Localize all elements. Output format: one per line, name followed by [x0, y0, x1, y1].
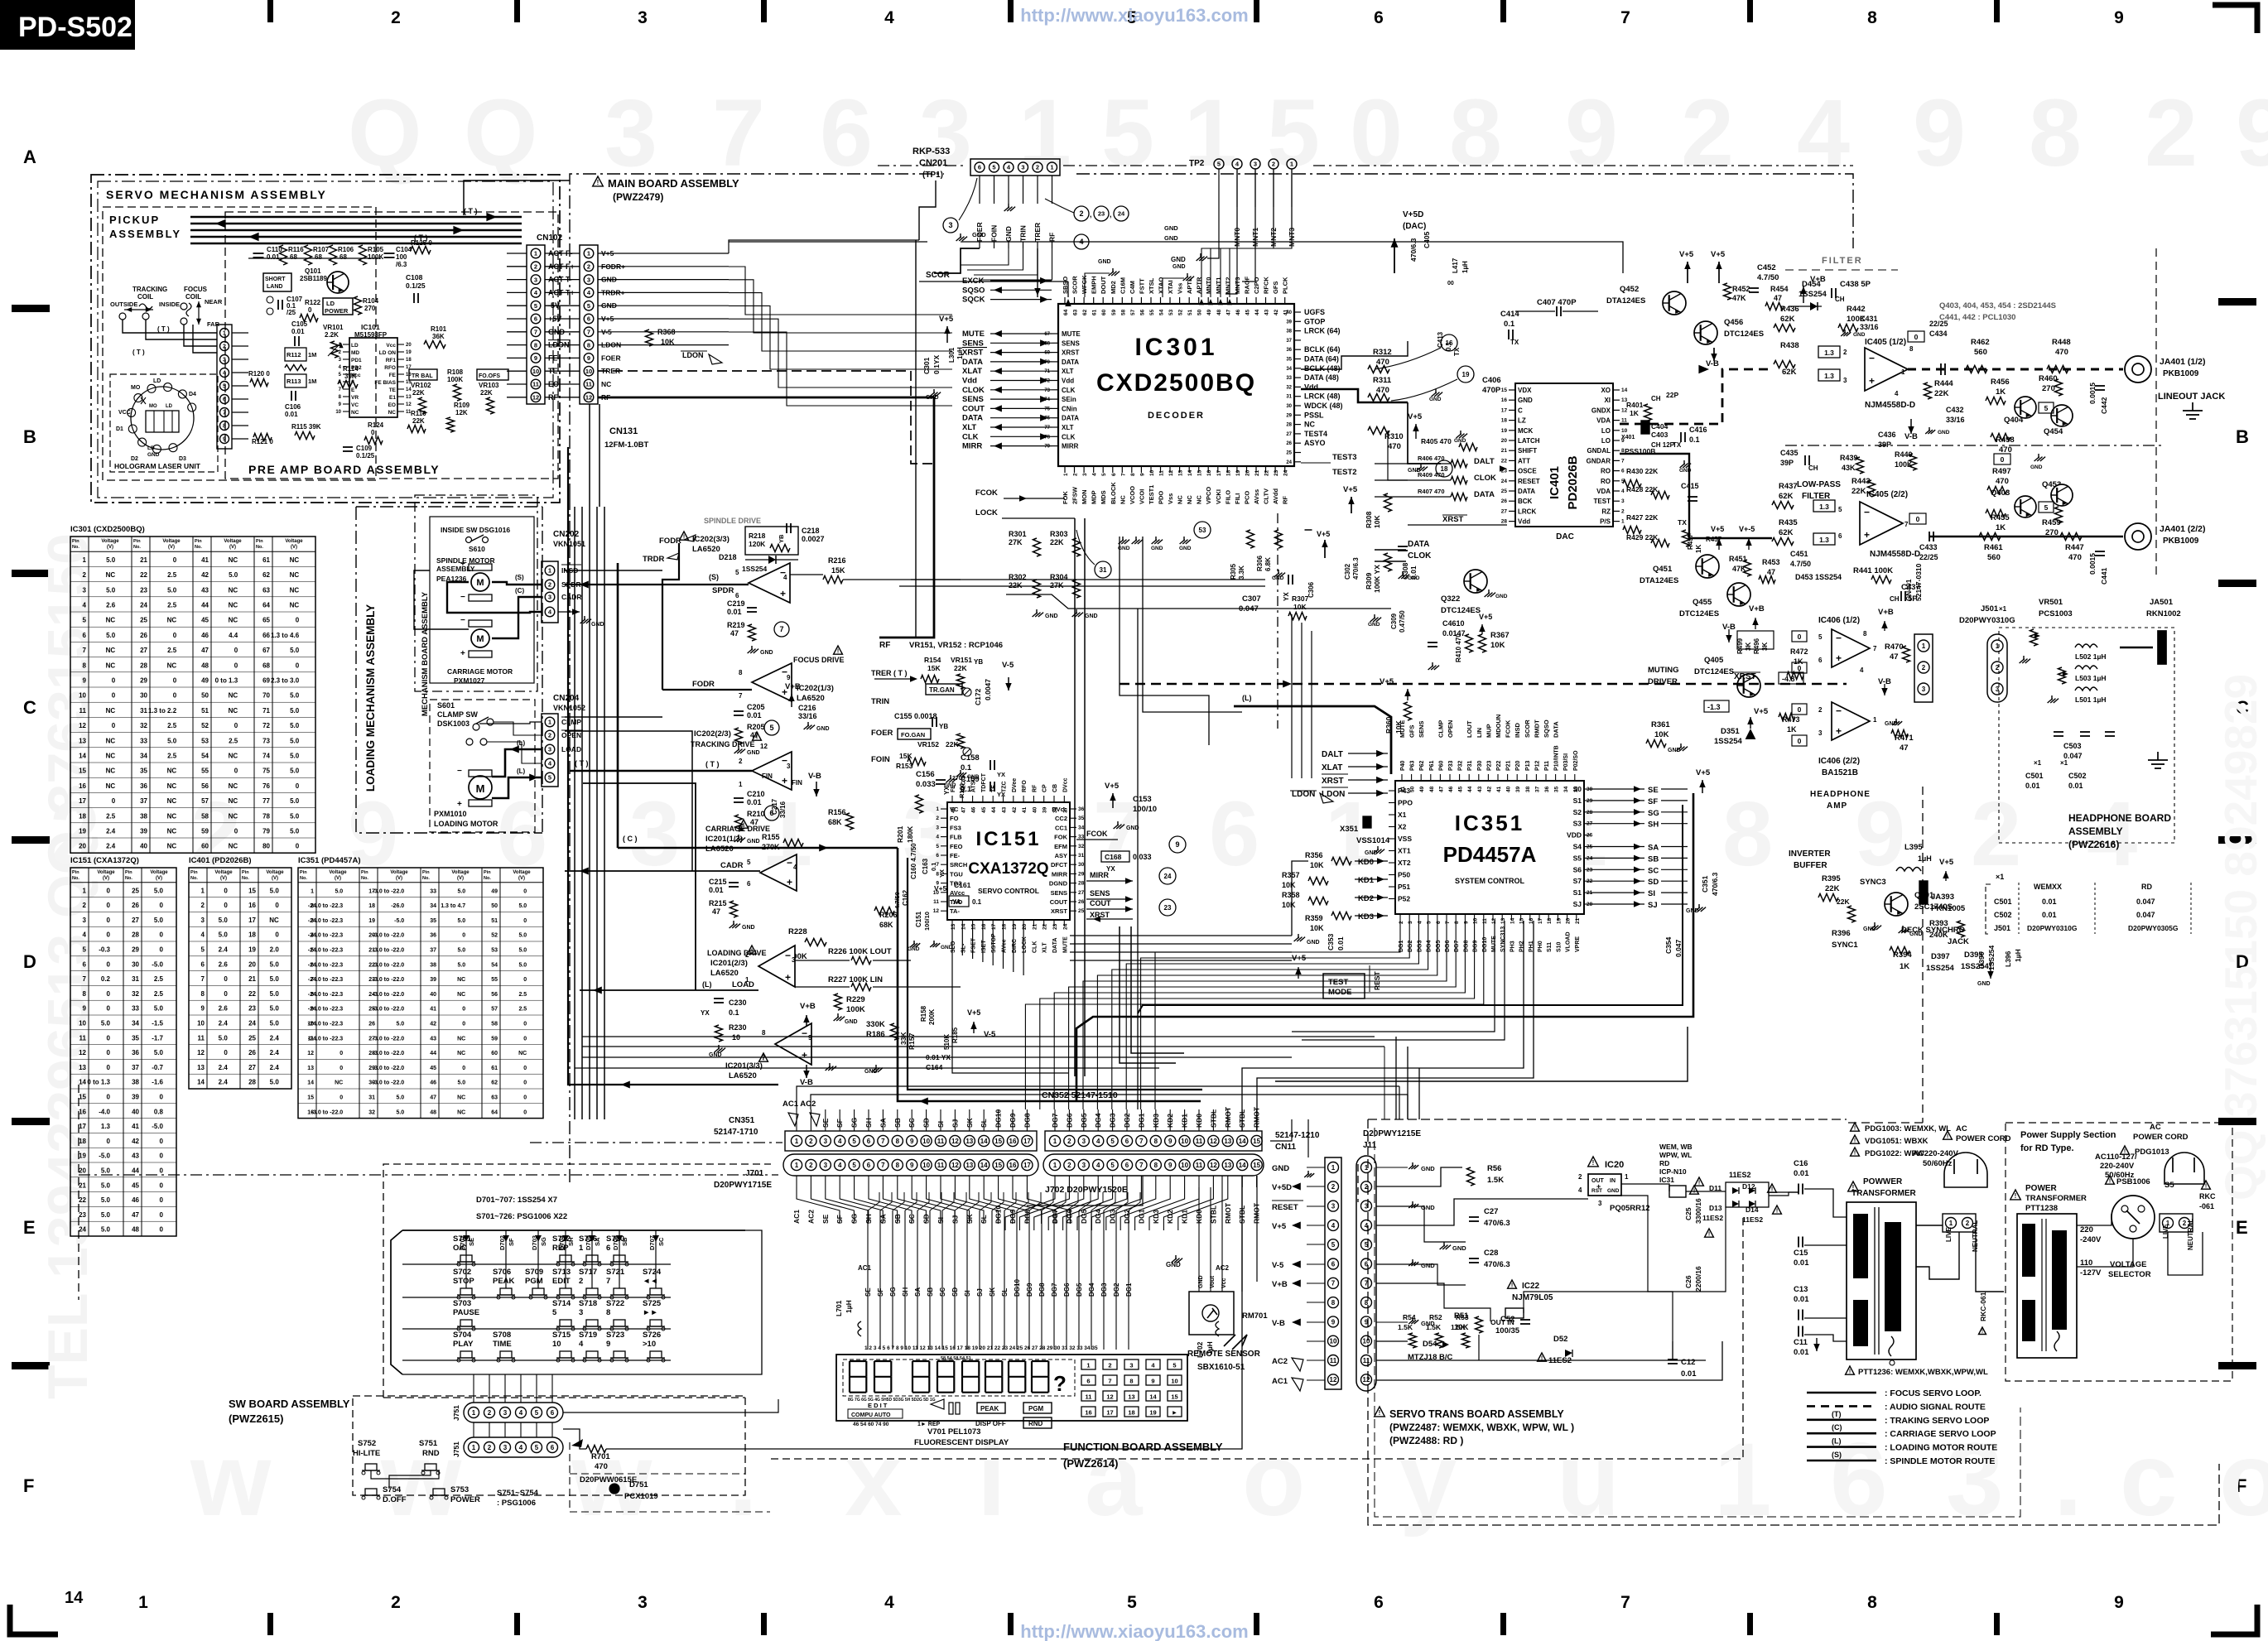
svg-text:11: 11	[198, 1034, 205, 1042]
svg-text:PD2026B: PD2026B	[1566, 455, 1580, 509]
svg-text:D395: D395	[1964, 950, 1983, 960]
IC151 bottom fan to CN352	[951, 926, 953, 952]
svg-text:C163: C163	[922, 858, 929, 874]
svg-text:: PSG1006: : PSG1006	[497, 1499, 536, 1508]
headphone board assembly box	[1999, 628, 2174, 843]
svg-text:1K: 1K	[1996, 523, 2006, 532]
svg-text:5.0: 5.0	[154, 1005, 164, 1013]
svg-text:No.: No.	[300, 876, 307, 881]
svg-text:NC: NC	[106, 768, 116, 775]
svg-text:1: 1	[223, 331, 226, 337]
svg-text:7: 7	[779, 625, 783, 633]
svg-text:7: 7	[1331, 1280, 1336, 1287]
svg-text:5.0: 5.0	[167, 737, 177, 744]
svg-text:RESET: RESET	[1518, 478, 1540, 485]
top border ticks and zone numbers	[267, 0, 273, 22]
ground symbols under IC301	[1122, 537, 1124, 541]
svg-text:0: 0	[275, 902, 279, 909]
svg-text:1.3: 1.3	[101, 1123, 111, 1130]
svg-text:/25: /25	[287, 309, 296, 316]
svg-text:470/6.3: 470/6.3	[1352, 557, 1360, 580]
svg-text:1: 1	[795, 1138, 799, 1145]
svg-text:(V): (V)	[156, 876, 162, 881]
svg-text:DATA: DATA	[1518, 488, 1535, 495]
svg-text:S4: S4	[1573, 843, 1582, 851]
svg-text:C28: C28	[1484, 1249, 1498, 1258]
svg-text:TRER: TRER	[1033, 223, 1042, 242]
svg-text:SENS: SENS	[962, 395, 984, 404]
svg-text:R496: R496	[1753, 638, 1760, 654]
svg-text:V+5: V+5	[1711, 525, 1724, 533]
svg-text:31: 31	[1100, 566, 1107, 574]
svg-text:MIRR: MIRR	[1062, 443, 1079, 450]
svg-text:28: 28	[1078, 881, 1085, 887]
svg-text:50: 50	[201, 692, 209, 700]
svg-text:3: 3	[503, 1444, 508, 1451]
svg-text:5.0: 5.0	[457, 948, 465, 954]
svg-text:−: −	[1836, 705, 1842, 717]
svg-text:CN11: CN11	[1275, 1143, 1296, 1152]
svg-text:GND: GND	[1607, 1188, 1620, 1194]
svg-text:DAC: DAC	[1556, 532, 1574, 541]
svg-text:0.01: 0.01	[727, 608, 742, 616]
Q455 DTC124ES	[1727, 583, 1750, 606]
svg-text:SG: SG	[1648, 809, 1659, 818]
svg-text:8: 8	[1722, 783, 1773, 885]
svg-text:NC: NC	[229, 707, 238, 715]
svg-text:1: 1	[548, 567, 551, 575]
svg-text:-1.7: -1.7	[152, 1034, 163, 1042]
svg-text:DATA: DATA	[1408, 540, 1429, 549]
svg-text:NC: NC	[351, 410, 359, 416]
svg-text:PEAK: PEAK	[493, 1277, 515, 1286]
svg-text:LO: LO	[1601, 427, 1611, 435]
svg-text:11: 11	[933, 899, 939, 905]
svg-text:1: 1	[1922, 642, 1926, 650]
svg-text:C441, 442 : PCL1030: C441, 442 : PCL1030	[1939, 313, 2015, 322]
svg-text:17: 17	[1216, 469, 1222, 476]
svg-text:XT2: XT2	[1398, 859, 1411, 867]
svg-text:6: 6	[747, 880, 751, 888]
svg-text:61: 61	[1092, 309, 1098, 315]
svg-text:21: 21	[1501, 448, 1508, 454]
svg-text:18: 18	[79, 1138, 86, 1145]
svg-text:5: 5	[747, 859, 751, 866]
svg-text:1: 1	[1290, 161, 1293, 168]
svg-text:CLMP: CLMP	[561, 718, 581, 726]
svg-text:LOADING DRIVE: LOADING DRIVE	[707, 949, 767, 957]
svg-text:NC: NC	[106, 571, 116, 579]
svg-text:YX: YX	[997, 771, 1005, 778]
svg-text:L501 1µH: L501 1µH	[2075, 695, 2107, 704]
thick (L) route to IC351 region	[1234, 706, 1391, 774]
svg-text:3: 3	[638, 1593, 648, 1612]
svg-text:-127V: -127V	[2080, 1268, 2102, 1278]
svg-text:R158: R158	[920, 1005, 927, 1022]
svg-text:12FM-1.0BT: 12FM-1.0BT	[604, 440, 649, 450]
svg-text:19: 19	[79, 828, 86, 835]
svg-text:6: 6	[606, 1244, 610, 1253]
svg-text:R367: R367	[1490, 631, 1510, 640]
DATA/BCLK thick route from IC301 right to DAC	[1301, 389, 1408, 402]
svg-text:61: 61	[491, 1066, 498, 1071]
svg-text:DG2: DG2	[1113, 1282, 1120, 1297]
svg-text:LD ON: LD ON	[379, 350, 397, 356]
svg-text:L502 1µH: L502 1µH	[2075, 652, 2107, 661]
svg-text:37: 37	[140, 797, 147, 805]
svg-text:1: 1	[1086, 1362, 1090, 1369]
svg-text:8: 8	[1454, 921, 1460, 924]
svg-text:PD-S502: PD-S502	[18, 12, 132, 43]
svg-text:R156: R156	[828, 808, 846, 816]
svg-text:23: 23	[248, 1005, 256, 1013]
svg-text:17: 17	[1106, 1409, 1113, 1417]
svg-text:SYNC3: SYNC3	[1860, 878, 1886, 887]
svg-text:7: 7	[1620, 1593, 1630, 1612]
svg-text:(PWZ2488: RD ): (PWZ2488: RD )	[1389, 1435, 1463, 1446]
AC power cord 1	[1943, 1131, 1953, 1139]
svg-text:Voltage: Voltage	[224, 539, 242, 544]
svg-text:C451: C451	[1790, 550, 1808, 558]
svg-text:8: 8	[2029, 80, 2082, 186]
C109 0.1/25	[343, 446, 353, 448]
svg-text:0: 0	[160, 1196, 164, 1204]
svg-text:5: 5	[2044, 404, 2049, 412]
svg-text:0.1/25: 0.1/25	[356, 452, 375, 460]
svg-text:5: 5	[1838, 506, 1842, 513]
svg-text:5: 5	[535, 1409, 539, 1417]
svg-text:470: 470	[1996, 477, 2009, 486]
svg-text:XTAI: XTAI	[1167, 280, 1174, 294]
svg-text:2.0: 2.0	[270, 946, 280, 954]
svg-text:1: 1	[548, 719, 551, 726]
J11 right side gnd wires	[1376, 1167, 1408, 1168]
bottom-left corner mark	[10, 1605, 58, 1634]
svg-text:37: 37	[430, 948, 436, 954]
svg-text:V+5: V+5	[1754, 707, 1769, 716]
svg-text:3: 3	[1408, 921, 1413, 924]
svg-text:No.: No.	[125, 876, 132, 881]
svg-text:L395: L395	[1904, 843, 1923, 852]
bottom border ticks and zone numbers	[267, 1613, 273, 1635]
svg-text:40: 40	[140, 843, 147, 850]
svg-text:9: 9	[1139, 473, 1145, 476]
svg-text:20: 20	[248, 960, 256, 968]
svg-text:FO: FO	[950, 815, 959, 822]
svg-text:FILI: FILI	[1234, 493, 1241, 504]
svg-text:26: 26	[1286, 441, 1292, 446]
svg-text:0: 0	[107, 1034, 111, 1042]
svg-text:21: 21	[1575, 917, 1581, 924]
carriage motor	[469, 620, 492, 627]
svg-text:0.1: 0.1	[961, 763, 972, 772]
svg-text:D52: D52	[1553, 1335, 1567, 1344]
svg-text:16: 16	[1009, 1138, 1017, 1145]
svg-text:3: 3	[534, 276, 537, 283]
svg-text:MO: MO	[149, 404, 157, 409]
svg-text:5.0: 5.0	[219, 931, 229, 939]
svg-text:4: 4	[519, 1409, 523, 1417]
svg-text:2: 2	[1272, 161, 1275, 168]
svg-text:21: 21	[248, 975, 256, 983]
svg-text:Q404: Q404	[2004, 416, 2024, 425]
svg-text:POWER CORD: POWER CORD	[2133, 1133, 2189, 1142]
svg-text:29: 29	[132, 946, 139, 954]
svg-text:FOIN: FOIN	[871, 755, 890, 764]
svg-text:0: 0	[371, 429, 375, 436]
svg-text:7: 7	[1620, 8, 1630, 27]
svg-text:R201: R201	[896, 825, 904, 843]
JA393 PKN1005 deck synchro jack	[1919, 881, 1928, 904]
svg-text:C354: C354	[1664, 936, 1673, 954]
svg-text:5.0: 5.0	[154, 887, 164, 894]
svg-text:FE-: FE-	[950, 852, 961, 859]
svg-text:2: 2	[1843, 349, 1847, 356]
svg-text:C12: C12	[1681, 1358, 1695, 1367]
svg-text:9: 9	[1565, 80, 1618, 186]
svg-text:5.0: 5.0	[101, 1020, 111, 1027]
svg-text:PRE AMP BOARD ASSEMBLY: PRE AMP BOARD ASSEMBLY	[248, 463, 440, 476]
svg-text:2: 2	[1036, 164, 1039, 171]
svg-text:VDG1051: WBXK: VDG1051: WBXK	[1865, 1137, 1929, 1146]
svg-text:D20PWY0310G: D20PWY0310G	[2027, 924, 2078, 932]
svg-text:RM701: RM701	[1242, 1311, 1268, 1321]
svg-text:DVee: DVee	[1012, 778, 1018, 792]
svg-text:2.5: 2.5	[106, 812, 116, 820]
svg-text:18: 18	[368, 903, 375, 909]
svg-text:34: 34	[1563, 786, 1569, 792]
svg-text:YX: YX	[1106, 865, 1115, 873]
wire J751 to R701 to function bus	[563, 1429, 586, 1449]
svg-text:( C ): ( C )	[623, 835, 638, 843]
svg-text:CH: CH	[1890, 595, 1900, 603]
power transformer PTT1238	[2010, 1190, 2021, 1200]
svg-text:RFO: RFO	[1022, 780, 1028, 792]
svg-text:FODR: FODR	[692, 680, 715, 689]
svg-text:Q403: Q403	[1991, 488, 2010, 498]
mechanism board assembly box	[415, 495, 537, 691]
svg-text:1K: 1K	[1996, 387, 2006, 397]
svg-text:TEST3: TEST3	[1332, 453, 1357, 462]
svg-text:LRCK (64): LRCK (64)	[1304, 327, 1341, 335]
svg-text:0: 0	[1798, 737, 1802, 745]
svg-text:2FSW: 2FSW	[1071, 486, 1079, 504]
power transformer PTT1236	[1848, 1181, 1859, 1191]
svg-text:20: 20	[1245, 469, 1251, 476]
svg-text:C: C	[23, 697, 36, 718]
svg-text:C218: C218	[802, 527, 820, 535]
svg-text:5: 5	[83, 946, 87, 954]
svg-text:SHORT: SHORT	[265, 277, 286, 282]
svg-text:×1: ×1	[2060, 759, 2068, 767]
svg-text:23: 23	[79, 1211, 86, 1219]
svg-text:25: 25	[1286, 451, 1292, 456]
svg-text:6: 6	[1374, 1593, 1384, 1612]
svg-text:27: 27	[132, 917, 139, 924]
svg-text:18: 18	[1547, 917, 1553, 924]
svg-text:M: M	[476, 578, 484, 588]
svg-text:1M: 1M	[308, 351, 316, 359]
svg-text:1: 1	[201, 887, 205, 894]
svg-text:5: 5	[1217, 161, 1221, 168]
svg-text:33K: 33K	[899, 1032, 908, 1045]
svg-text:0: 0	[296, 843, 300, 850]
svg-text:26: 26	[1078, 899, 1085, 905]
central routing bundle below IC301	[911, 579, 1265, 580]
svg-text:0.1: 0.1	[1689, 436, 1700, 444]
svg-text:2: 2	[1108, 1362, 1111, 1369]
svg-text:46: 46	[1235, 309, 1241, 315]
svg-text:0 to 1.3: 0 to 1.3	[215, 677, 238, 685]
svg-text:60: 60	[491, 1051, 498, 1056]
servo trans board label	[1375, 1407, 1385, 1417]
svg-text:43: 43	[430, 1036, 436, 1042]
svg-text:0: 0	[224, 902, 228, 909]
svg-text:DG10: DG10	[1014, 1279, 1021, 1297]
svg-text:GND: GND	[1171, 256, 1186, 263]
svg-text:2: 2	[1067, 1162, 1071, 1169]
svg-text:WDCK (48): WDCK (48)	[1304, 402, 1343, 410]
svg-text:+: +	[1869, 375, 1875, 387]
svg-text:LA6520: LA6520	[705, 845, 734, 854]
svg-text:26: 26	[248, 1049, 256, 1056]
svg-text:3: 3	[223, 358, 226, 363]
svg-text:Voltage: Voltage	[266, 870, 284, 875]
svg-text:NC: NC	[388, 410, 397, 416]
svg-text:JACK: JACK	[1948, 937, 1969, 946]
svg-text:0: 0	[234, 722, 238, 729]
svg-text:23: 23	[1052, 923, 1058, 930]
svg-text:CB: CB	[1052, 784, 1058, 792]
svg-text:15K: 15K	[831, 566, 845, 575]
svg-text:o: o	[2219, 1422, 2268, 1538]
svg-text:JA401 (1/2): JA401 (1/2)	[2160, 357, 2205, 367]
svg-text:4: 4	[1621, 488, 1625, 494]
top-right corner mark	[2213, 5, 2257, 33]
svg-text:LD: LD	[153, 378, 161, 384]
svg-text:22K: 22K	[1837, 897, 1850, 906]
svg-text:27: 27	[140, 647, 147, 654]
svg-text:DECODER: DECODER	[1148, 411, 1205, 421]
svg-text:C172: C172	[974, 688, 982, 705]
svg-text:QQ 376315150 89249829: QQ 376315150 89249829	[2215, 674, 2266, 1201]
svg-text:5: 5	[1331, 1241, 1336, 1249]
svg-text:No.: No.	[484, 876, 491, 881]
svg-text:470: 470	[595, 1462, 608, 1471]
long bottom routes to CN11	[1399, 1086, 1400, 1119]
svg-text:24: 24	[79, 1226, 86, 1234]
svg-text:5: 5	[1818, 633, 1823, 641]
svg-text:NC: NC	[229, 782, 238, 790]
svg-text:FOCUS: FOCUS	[184, 286, 208, 293]
svg-text:22K: 22K	[954, 664, 967, 672]
PEAK PGM boxes	[977, 1403, 1005, 1413]
svg-text:4: 4	[1092, 473, 1098, 476]
svg-text:23: 23	[1098, 210, 1105, 218]
svg-text:32: 32	[132, 990, 139, 998]
svg-text:5.0: 5.0	[290, 737, 300, 744]
svg-text:S1: S1	[1573, 796, 1582, 805]
svg-text:46 54 60 74 90: 46 54 60 74 90	[853, 1422, 889, 1427]
svg-text:14: 14	[65, 1589, 84, 1607]
svg-text:56: 56	[1139, 309, 1145, 315]
svg-text:S706: S706	[493, 1268, 511, 1277]
svg-text:Vss: Vss	[1177, 283, 1184, 294]
svg-text:GFS: GFS	[1408, 725, 1416, 738]
svg-text:S751: S751	[419, 1439, 438, 1448]
svg-text:Vss: Vss	[1167, 493, 1174, 504]
svg-text:2: 2	[1818, 706, 1823, 714]
svg-text:330K: 330K	[866, 1020, 885, 1029]
C107 0.1/25	[277, 300, 279, 310]
svg-text:27: 27	[248, 1064, 256, 1071]
svg-text:IC202(1/3): IC202(1/3)	[797, 684, 834, 693]
svg-text:22K: 22K	[1825, 884, 1840, 893]
svg-text:Q456: Q456	[1724, 318, 1743, 327]
svg-text:1: 1	[1365, 1164, 1369, 1172]
svg-text:!: !	[1708, 1232, 1710, 1238]
svg-text:9: 9	[83, 677, 87, 685]
svg-text:Q: Q	[348, 80, 421, 186]
svg-text:58: 58	[491, 1022, 498, 1027]
svg-text:5: 5	[2044, 503, 2049, 512]
svg-text:S720: S720	[606, 1234, 624, 1244]
svg-text:47: 47	[1890, 652, 1899, 662]
svg-text:12: 12	[1210, 1162, 1217, 1169]
svg-text:R107: R107	[313, 246, 330, 253]
svg-text:45: 45	[981, 806, 987, 813]
svg-text:6: 6	[587, 315, 590, 323]
svg-text:-24.0 to -22.3: -24.0 to -22.3	[308, 1007, 344, 1013]
svg-text:V+5D: V+5D	[1403, 210, 1423, 219]
svg-text:RF: RF	[1282, 496, 1289, 504]
svg-text:19: 19	[79, 1153, 86, 1160]
svg-text:GND: GND	[1173, 264, 1186, 270]
svg-text:GND: GND	[1164, 224, 1178, 232]
svg-text:1: 1	[138, 1593, 148, 1612]
svg-text:2.4: 2.4	[219, 946, 229, 954]
svg-text:NC: NC	[229, 692, 238, 700]
svg-text:24: 24	[1501, 479, 1508, 484]
svg-text:AC1: AC1	[858, 1264, 872, 1272]
svg-text:NC: NC	[601, 380, 611, 388]
svg-text:RF: RF	[879, 641, 890, 650]
svg-text:45: 45	[132, 1181, 139, 1189]
svg-text:16: 16	[1085, 1409, 1091, 1417]
svg-text:44: 44	[430, 1051, 436, 1056]
svg-text:17: 17	[1538, 917, 1543, 924]
svg-text:R427 22K: R427 22K	[1626, 513, 1659, 522]
bus from keyboard right to function board	[745, 1230, 762, 1374]
svg-text:2: 2	[1922, 664, 1926, 671]
svg-text:22: 22	[1043, 923, 1048, 930]
svg-text:2: 2	[2145, 80, 2198, 186]
svg-text:IC401 (PD2026B): IC401 (PD2026B)	[189, 856, 252, 865]
svg-text:S7: S7	[1573, 877, 1582, 885]
svg-text:L301: L301	[948, 347, 956, 363]
svg-text:33: 33	[132, 1005, 139, 1013]
svg-text:1► REP: 1► REP	[917, 1422, 940, 1427]
svg-text:14: 14	[961, 923, 966, 930]
svg-text:5.0: 5.0	[106, 586, 116, 594]
svg-text:62: 62	[1082, 309, 1088, 315]
svg-text:C155 0.0018: C155 0.0018	[894, 712, 937, 720]
svg-text:R470: R470	[1885, 642, 1904, 652]
svg-text:RD: RD	[1659, 1159, 1669, 1167]
svg-text:14: 14	[1239, 1162, 1246, 1169]
svg-text:IC31: IC31	[1659, 1176, 1674, 1184]
svg-text:0: 0	[160, 1153, 164, 1160]
